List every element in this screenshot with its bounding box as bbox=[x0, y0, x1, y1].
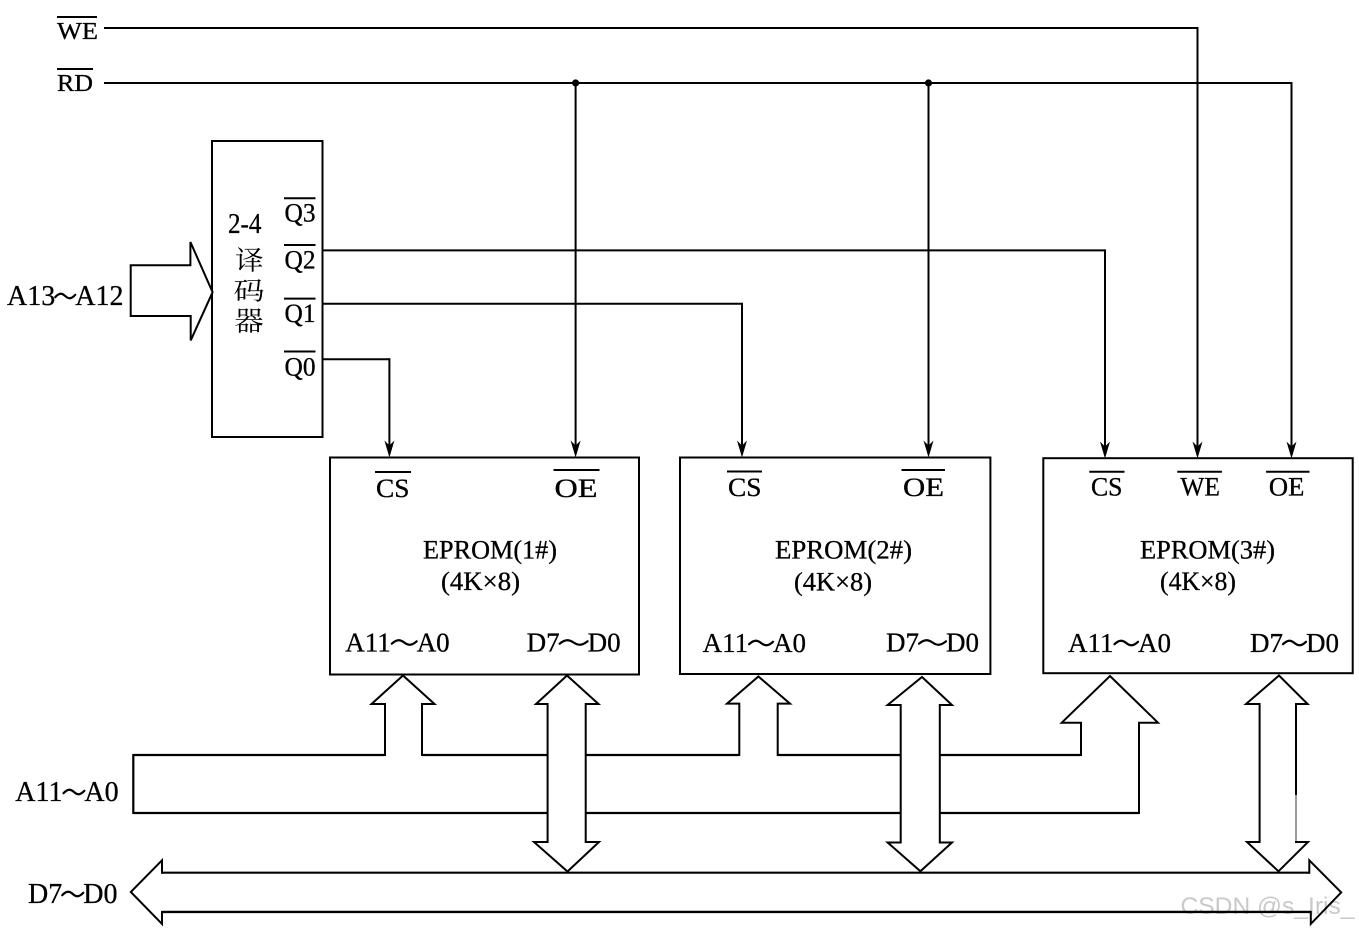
overline of Q1 bbox=[284, 298, 316, 300]
svg-text:RD: RD bbox=[57, 71, 93, 97]
tilde of U1 D7~D0 bbox=[560, 640, 588, 645]
svg-text:Q2: Q2 bbox=[285, 246, 316, 275]
overline of U2 OE bbox=[902, 469, 946, 471]
address bus bottom edge segment bbox=[586, 812, 901, 814]
overline of Q0 bbox=[284, 351, 316, 353]
data bus left arrowhead bbox=[131, 860, 162, 924]
overline of RD label bbox=[57, 68, 93, 70]
svg-text:OE: OE bbox=[903, 473, 944, 502]
overline of Q3 bbox=[284, 197, 316, 199]
data bus right arrowhead bbox=[1309, 860, 1341, 924]
overline of U3 WE bbox=[1177, 471, 1222, 473]
tilde of address bus label bbox=[64, 790, 85, 795]
decoder U0 2-4 decoder box bbox=[212, 141, 323, 437]
svg-text:D7: D7 bbox=[886, 628, 919, 658]
svg-text:EPROM(1#): EPROM(1#) bbox=[423, 536, 557, 565]
address bus top edge segment bbox=[586, 754, 740, 756]
decoder label char MA (码) bbox=[234, 279, 263, 302]
hollow arrow address bus into U2 bbox=[727, 677, 790, 757]
decoder label char QI (器) bbox=[235, 308, 263, 333]
svg-text:D0: D0 bbox=[83, 879, 117, 910]
wire Q0 horizontal to U1 CS bbox=[322, 358, 389, 360]
svg-text:A0: A0 bbox=[417, 628, 450, 658]
svg-text:D0: D0 bbox=[946, 628, 979, 658]
address bus top edge segment bbox=[133, 754, 385, 756]
svg-text:A0: A0 bbox=[773, 628, 806, 658]
wire WE vertical drop to U3 WE pin bbox=[1197, 27, 1199, 450]
wire WE horizontal bbox=[104, 27, 1198, 29]
tilde of U2 A11~A0 bbox=[749, 641, 773, 646]
wire Q2 horizontal to U3 CS bbox=[322, 249, 1105, 251]
overline of U2 CS bbox=[727, 471, 762, 473]
svg-text:EPROM(2#): EPROM(2#) bbox=[775, 536, 912, 565]
tilde of U3 A11~A0 bbox=[1115, 641, 1139, 646]
overline of U1 CS bbox=[375, 471, 411, 473]
svg-text:Q1: Q1 bbox=[285, 299, 316, 328]
svg-text:EPROM(3#): EPROM(3#) bbox=[1140, 536, 1275, 565]
svg-text:WE: WE bbox=[1180, 473, 1220, 502]
wire Q0 vertical drop to U1 CS pin bbox=[388, 358, 390, 449]
svg-text:CS: CS bbox=[376, 474, 410, 503]
overline of Q2 bbox=[284, 244, 316, 246]
svg-text:(4K×8): (4K×8) bbox=[1160, 567, 1236, 596]
scan-gray segment on U3 data arrow right stem bbox=[1295, 795, 1297, 841]
hollow arrow A13~A12 into decoder bbox=[131, 242, 213, 340]
svg-text:OE: OE bbox=[1269, 473, 1305, 502]
junction dot on RD at node OE2 tap bbox=[925, 79, 932, 86]
double hollow arrow data bus U3 D7~D0 bbox=[1246, 676, 1308, 872]
address bus bottom edge segment bbox=[940, 812, 1139, 814]
data bus top edge bbox=[162, 872, 1309, 874]
svg-text:WE: WE bbox=[57, 19, 98, 45]
svg-text:Q3: Q3 bbox=[285, 199, 316, 228]
svg-text:CS: CS bbox=[728, 473, 762, 502]
tilde of A13~A12 bbox=[55, 294, 75, 299]
svg-text:A12: A12 bbox=[75, 281, 123, 312]
EPROM U3 box EPROM(3#) bbox=[1043, 458, 1352, 673]
wire Q1 vertical drop to U2 CS pin bbox=[741, 303, 743, 449]
arrowhead into U3 WE pin bbox=[1193, 442, 1203, 459]
svg-text:(4K×8): (4K×8) bbox=[794, 568, 872, 597]
svg-text:D7: D7 bbox=[28, 879, 62, 910]
wire from RD junction down to U2 OE pin bbox=[928, 83, 930, 449]
address bus top edge segment bbox=[940, 754, 1081, 756]
svg-text:D7: D7 bbox=[527, 628, 560, 658]
hollow arrow address bus into U1 bbox=[372, 676, 435, 757]
double hollow arrow data bus U2 D7~D0 bbox=[888, 677, 952, 871]
decoder label char YI (译) bbox=[236, 247, 263, 272]
arrowhead into U3 OE pin bbox=[1287, 442, 1297, 459]
arrowhead into U1 CS pin bbox=[384, 441, 394, 458]
double hollow arrow data bus U1 D7~D0 bbox=[534, 676, 599, 872]
svg-text:A0: A0 bbox=[1138, 628, 1171, 658]
wire Q2 vertical drop to U3 CS pin bbox=[1104, 249, 1106, 450]
svg-text:A11: A11 bbox=[15, 777, 62, 808]
arrowhead into U3 CS pin bbox=[1100, 442, 1110, 459]
svg-text:Q0: Q0 bbox=[285, 353, 316, 382]
address bus bottom edge segment bbox=[133, 812, 547, 814]
arrowhead into U2 OE pin bbox=[924, 441, 934, 458]
arrowhead into U2 CS pin bbox=[737, 441, 747, 458]
wire from RD junction down to U1 OE pin bbox=[575, 83, 577, 449]
data bus bottom edge bbox=[163, 911, 1311, 913]
svg-text:CS: CS bbox=[1091, 473, 1123, 502]
EPROM U1 box EPROM(1#) bbox=[330, 458, 639, 675]
overline of WE label bbox=[57, 16, 97, 18]
svg-text:A11: A11 bbox=[1068, 628, 1114, 658]
overline of U1 OE bbox=[554, 469, 600, 471]
overline of U3 CS bbox=[1089, 471, 1124, 473]
svg-text:A13: A13 bbox=[7, 281, 55, 312]
EPROM U2 box EPROM(2#) bbox=[680, 458, 990, 675]
svg-text:D0: D0 bbox=[1306, 628, 1339, 658]
arrowhead into U1 OE pin bbox=[571, 441, 581, 458]
address bus top edge segment bbox=[422, 754, 548, 756]
svg-text:D0: D0 bbox=[588, 628, 621, 658]
svg-text:A11: A11 bbox=[703, 628, 749, 658]
wire RD vertical drop to U3 OE pin bbox=[1291, 82, 1293, 450]
wire RD horizontal bbox=[104, 82, 1292, 84]
svg-text:2-4: 2-4 bbox=[228, 208, 262, 240]
tilde of U2 D7~D0 bbox=[919, 640, 946, 645]
tilde of U3 D7~D0 bbox=[1283, 641, 1306, 646]
address bus left end vertical bbox=[132, 754, 134, 814]
svg-text:A11: A11 bbox=[345, 628, 391, 658]
overline of U3 OE bbox=[1266, 471, 1309, 473]
tilde of U1 A11~A0 bbox=[392, 640, 417, 645]
hollow arrow address bus into U3 (bus end) bbox=[1062, 676, 1158, 814]
svg-text:(4K×8): (4K×8) bbox=[441, 567, 520, 596]
svg-text:OE: OE bbox=[555, 474, 598, 503]
tilde of data bus label bbox=[62, 892, 83, 897]
junction dot on RD at node OE1 tap bbox=[572, 79, 579, 86]
wire Q1 horizontal to U2 CS bbox=[322, 303, 742, 305]
svg-text:D7: D7 bbox=[1250, 628, 1283, 658]
svg-text:A0: A0 bbox=[84, 777, 118, 808]
address bus top edge segment bbox=[778, 754, 901, 756]
